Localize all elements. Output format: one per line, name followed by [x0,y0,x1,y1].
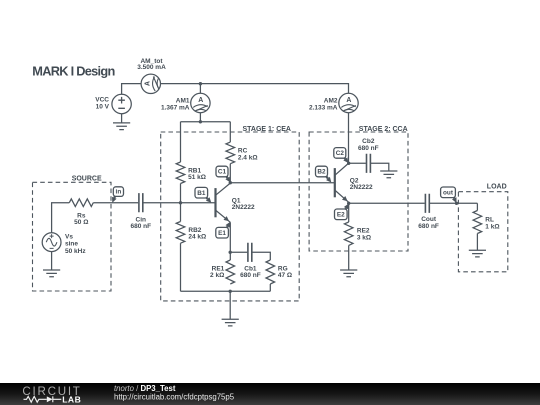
wire E2 to Cout [349,202,425,204]
svg-text:A: A [198,97,203,104]
STAGE 2 dashed box [309,132,408,251]
transistor Q2 2N2222 [334,168,336,197]
svg-text:3 kΩ: 3 kΩ [357,234,371,241]
wire AM2 to Q2 collector [348,113,350,164]
node out [453,196,454,198]
junction node B1 / RB1 / RB2 [179,201,182,204]
capacitor Cin [139,193,143,212]
wire AM1 bracket [181,121,231,123]
capacitor Cb2 [367,154,371,173]
svg-text:50 Ω: 50 Ω [74,219,88,226]
svg-text:24 kΩ: 24 kΩ [188,234,206,241]
junction node out [455,202,458,205]
junction node bottom rail gnd [229,290,232,293]
ground VCC [113,123,130,130]
ground Cb2 [380,171,397,178]
svg-text:680 nF: 680 nF [418,223,439,230]
junction node C2 collector [347,162,350,165]
wire RB2 top [180,203,182,222]
wire gnd stem stage1 [229,291,231,319]
LOAD dashed box [458,192,507,272]
svg-text:A: A [346,97,351,104]
svg-text:C2: C2 [336,150,345,157]
wire AM1 down [199,113,201,122]
svg-text:47 Ω: 47 Ω [278,272,292,279]
resistor RC [226,142,235,164]
svg-text:10 V: 10 V [96,103,110,110]
svg-text:http://circuitlab.com/cfdcptps: http://circuitlab.com/cfdcptpsg75p5 [114,392,235,401]
svg-text:680 nF: 680 nF [131,223,152,230]
wire RG bottom [269,284,271,291]
resistor Rs [69,199,93,207]
svg-text:in: in [116,188,122,195]
wire Q2 emitter down [348,202,350,222]
svg-text:680 nF: 680 nF [358,145,379,152]
junction node AM1 bracket [199,120,202,123]
svg-text:2.133 mA: 2.133 mA [309,104,338,111]
ammeter AM1 [191,93,210,112]
junction node E2 emitter [347,202,350,205]
wire RL bottom [476,234,478,251]
svg-text:2.4 kΩ: 2.4 kΩ [238,155,258,162]
svg-text:C1: C1 [218,169,227,176]
wire RE2 bottom [348,245,350,270]
svg-text:51 kΩ: 51 kΩ [188,174,206,181]
node in [114,195,115,198]
svg-text:LAB: LAB [62,395,81,405]
ground Vs [43,270,60,277]
transistor Q1 2N2222 [214,188,216,217]
wire VCC bottom [121,114,123,123]
svg-text:B1: B1 [197,190,206,197]
svg-text:SOURCE: SOURCE [72,175,102,182]
wire Q2c to Cb2 [349,162,366,164]
wire Q1 emitter down [229,222,231,260]
svg-text:out: out [443,190,454,197]
svg-text:E1: E1 [218,230,226,237]
capacitor Cb1 [248,243,252,262]
wire top rail to AM2 [161,84,349,94]
wire Cb1 to RG [252,252,271,260]
voltage source VCC [112,94,131,113]
wire Rs to Cin [93,202,138,204]
svg-text:1.367 mA: 1.367 mA [161,104,190,111]
wire Cout to RL [429,202,477,204]
ground RE2 [340,270,357,277]
wire RB2 to bottom rail [180,243,182,291]
wire RL top [476,203,478,210]
STAGE 1 dashed box [161,132,300,301]
junction node C1 collector [229,181,232,184]
resistor RG [266,260,275,284]
svg-text:1 kΩ: 1 kΩ [485,224,499,231]
node B1 [205,197,207,199]
svg-text:MARK I Design: MARK I Design [32,64,115,79]
resistor RB2 [176,222,185,244]
wire bottom rail [181,290,271,292]
node C2 [344,157,346,159]
ammeter AM_tot [141,74,160,93]
svg-text:2 kΩ: 2 kΩ [210,272,224,279]
svg-text:sine: sine [65,241,78,248]
wire Cin to Q1 base [143,202,215,204]
node C1 [226,175,228,178]
capacitor Cout [425,194,429,213]
svg-text:B2: B2 [317,169,326,176]
junction node E1 / RE1 / Cb1 [229,251,232,254]
wire Vs bottom [51,252,53,270]
wire VCC top to rail [122,84,142,95]
svg-text:STAGE 2: CCA: STAGE 2: CCA [359,126,408,133]
svg-text:2N2222: 2N2222 [232,204,255,211]
wire RB1 bottom [180,184,182,203]
wire to RB1 top [180,122,182,162]
svg-text:3.500 mA: 3.500 mA [137,64,166,71]
ammeter AM2 [339,93,358,112]
resistor RE1 [226,260,235,284]
wire C1 to B2 [230,182,334,184]
wire Vs to Rs [52,203,70,233]
wire AM1 stem up [199,84,201,94]
node E2 [345,208,346,210]
junction node top rail / AM1 [199,82,202,85]
svg-text:680 nF: 680 nF [240,272,261,279]
wire to RC top [229,122,231,142]
resistor RL [473,211,482,234]
resistor RB1 [176,162,185,184]
SOURCE dashed box [33,132,508,301]
ground stage1 [222,319,239,326]
ground RL [469,250,486,257]
voltage source Vs (sine) [42,233,61,252]
wire Cb2 to gnd [370,163,389,171]
svg-text:50 kHz: 50 kHz [65,248,86,255]
resistor RE2 [344,222,353,245]
svg-text:E2: E2 [337,212,345,219]
svg-text:2N2222: 2N2222 [350,184,373,191]
svg-text:A: A [145,81,152,86]
svg-text:LOAD: LOAD [487,183,507,190]
svg-text:Vs: Vs [65,233,73,240]
wire RC to collector [229,164,231,184]
logo resistor-diode glyph [24,396,62,402]
svg-text:STAGE 1: CEA: STAGE 1: CEA [243,126,292,133]
wire node to Cb1 [230,251,247,253]
node E1 [226,226,228,229]
node B2 [325,175,328,178]
